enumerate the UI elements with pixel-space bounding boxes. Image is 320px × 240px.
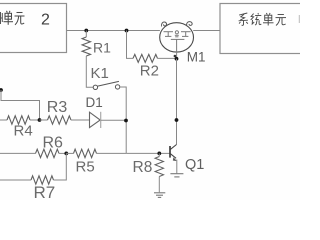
wire: left box to motor	[67, 30, 160, 32]
svg-text:Q1: Q1	[185, 157, 204, 173]
node dot R8 tap	[157, 152, 161, 156]
node / L wire from left edge	[0, 88, 3, 92]
resistor R4	[0, 119, 7, 121]
svg-text:R6: R6	[43, 135, 64, 152]
right box 系统单元	[220, 4, 308, 54]
wire collector vertical	[176, 59, 178, 145]
svg-text:R1: R1	[93, 39, 111, 55]
right box text	[239, 13, 248, 25]
wire R1 to K1	[86, 56, 93, 87]
svg-text:2: 2	[41, 12, 50, 29]
ground (Q1 emitter)	[170, 174, 183, 177]
svg-text:R3: R3	[47, 99, 68, 116]
resistor R2 branch	[127, 31, 134, 59]
resistor R7	[0, 179, 31, 181]
node dot M1/R2/collector	[175, 57, 179, 61]
resistor R5	[66, 152, 73, 154]
wire K1 to vertical net	[120, 87, 126, 153]
resistor R1	[85, 31, 87, 38]
left box 单元2	[0, 4, 67, 53]
svg-text:R7: R7	[34, 183, 56, 200]
resistor R8	[155, 157, 163, 177]
base wire to Q1	[126, 152, 170, 154]
transistor Q1	[169, 146, 171, 158]
svg-text:R4: R4	[14, 122, 33, 139]
node dot R6/R5/R7	[64, 152, 68, 156]
diode D1	[90, 112, 101, 127]
motor terminal hooks	[161, 22, 166, 27]
node dot on collector line	[175, 118, 179, 122]
wire: motor to right box	[193, 30, 220, 32]
svg-text:R2: R2	[140, 63, 159, 80]
svg-text:R5: R5	[76, 159, 95, 176]
switch K1	[93, 85, 97, 89]
svg-text:D1: D1	[86, 95, 103, 110]
partial character (cut)	[0, 12, 2, 24]
node dot (R2 tap)	[125, 29, 129, 33]
ground (R8)	[154, 193, 165, 198]
node dot D1/K1 net	[124, 119, 128, 123]
node dot (R1 tap)	[84, 29, 88, 33]
svg-text:M1: M1	[187, 50, 206, 65]
resistor R6	[0, 152, 36, 154]
svg-text:R8: R8	[133, 159, 153, 176]
left box text 单元 2	[4, 11, 14, 25]
motor M1	[160, 23, 194, 52]
resistor R3	[40, 119, 48, 121]
node dot R4/R3	[38, 118, 42, 122]
svg-text:K1: K1	[91, 65, 109, 82]
wire motor to collector node	[176, 52, 178, 59]
